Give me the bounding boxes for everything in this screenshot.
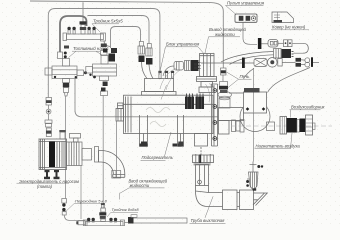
svg-text:Блок управления: Блок управления — [166, 42, 200, 47]
svg-text:Переходник 5 к 8: Переходник 5 к 8 — [75, 198, 108, 203]
svg-text:Подогреватель: Подогреватель — [142, 155, 173, 160]
svg-text:(помпа): (помпа) — [37, 184, 53, 189]
svg-text:Нагнетатель воздуха: Нагнетатель воздуха — [256, 143, 301, 148]
svg-text:Тройник 5х5х5: Тройник 5х5х5 — [93, 19, 123, 24]
svg-text:Тройник 8х8х8: Тройник 8х8х8 — [112, 207, 140, 212]
svg-text:жидкости: жидкости — [214, 32, 235, 37]
svg-text:Пульт управления: Пульт управления — [227, 1, 265, 6]
svg-text:Ковер (не нужен): Ковер (не нужен) — [272, 25, 306, 30]
svg-text:Воздухозаборник: Воздухозаборник — [291, 105, 326, 110]
svg-text:Труба выхлопная: Труба выхлопная — [191, 218, 226, 223]
svg-text:жидкости: жидкости — [129, 183, 150, 188]
